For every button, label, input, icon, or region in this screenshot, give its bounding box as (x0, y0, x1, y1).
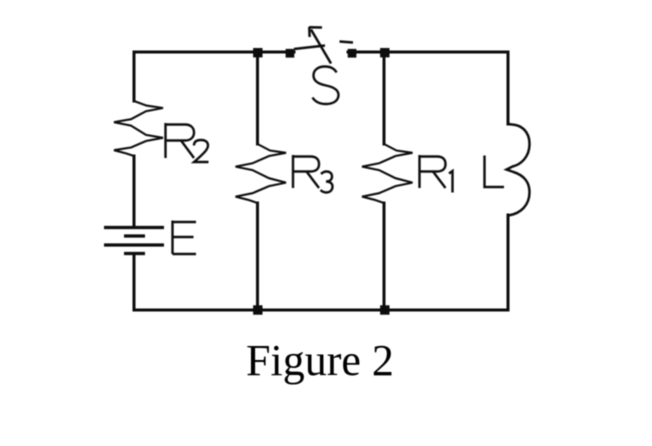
svg-text:Figure 2: Figure 2 (246, 336, 394, 385)
